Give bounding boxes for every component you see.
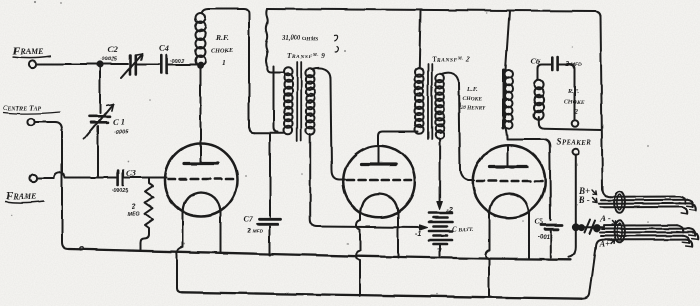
svg-text:-1: -1 [415, 231, 421, 238]
wire : V1 plate lead / junction with C4 [200, 65, 202, 147]
terminal : frame aerial bottom [29, 174, 36, 181]
svg-text:·00025: ·00025 [100, 57, 118, 63]
transformer T2 core [428, 64, 432, 139]
wire : A spare lead 2 [600, 231, 692, 233]
svg-text:C2: C2 [108, 44, 119, 54]
wire : V3 filament left leg [485, 213, 489, 297]
svg-text:R.F.: R.F. [215, 33, 229, 42]
wire : V3 filament right leg [528, 213, 530, 258]
wire : T2 primary top to rail2 [419, 11, 420, 68]
wire : choke top to top rail no.1 [202, 9, 209, 14]
wire : C1 top lead [99, 64, 101, 113]
svg-text:2: 2 [574, 109, 579, 116]
LF choke winding [505, 70, 513, 78]
vacuum tube V1 (detector) [165, 144, 238, 217]
node : junction of C1 with aerial lead [97, 62, 102, 67]
wire : T2 secondary bottom down to C battery [439, 139, 441, 203]
svg-text:·001: ·001 [538, 235, 551, 241]
capacitor C5 (.001) [541, 225, 562, 257]
wire : top rail no.2 (B+ bus) [267, 9, 601, 17]
wire : C1 bottom lead [97, 126, 99, 176]
battery C BATT [429, 213, 452, 244]
wire : V1 filament left leg to lower bus (hop over upper bus) [177, 212, 183, 292]
wire : rail2 right end down to B+ leads [601, 15, 611, 197]
svg-text:-2: -2 [447, 208, 453, 215]
wire : V2 filament left leg (hops bias wire and upper bus) [356, 213, 361, 296]
wire : A spare lead 1 [602, 228, 689, 230]
wire : V1 filament right leg to upper bus [220, 212, 222, 253]
svg-text:TRANSFM. 9: TRANSFM. 9 [287, 52, 325, 60]
wire : B+ lead [610, 196, 679, 198]
LF choke 20 henrys : core bar [502, 70, 505, 128]
little arrow after A- label [612, 221, 616, 225]
svg-text:CHOKE: CHOKE [565, 100, 585, 106]
svg-text:C4: C4 [159, 43, 169, 53]
terminal : speaker bottom [573, 149, 580, 156]
resistor R1 2 MEG grid leak [141, 178, 154, 250]
svg-text:C6: C6 [531, 57, 540, 66]
svg-text:C3: C3 [126, 168, 137, 178]
transformer T1 primary winding [284, 67, 293, 76]
svg-text:TRANSFM. 2: TRANSFM. 2 [432, 56, 470, 64]
wire : centre tap down to filament bus [35, 122, 69, 249]
svg-text:+: + [437, 244, 442, 254]
wire : B- lead [601, 199, 687, 202]
wire : T1 secondary top to V2 grid [312, 68, 345, 179]
transformer T1 secondary winding [306, 69, 315, 78]
RF choke no.2 [534, 80, 544, 90]
wire : LF choke top to rail2 [506, 11, 510, 70]
svg-text:2: 2 [131, 204, 136, 211]
wire : T1 secondary bottom to C-battery minus [310, 134, 421, 228]
capacitor C4 (.0003) [161, 55, 166, 73]
wire : upper filament bus [69, 249, 571, 259]
transformer T2 primary winding [415, 68, 424, 77]
svg-text:31,000 OHMS: 31,000 OHMS [281, 35, 318, 42]
wire : T2 secondary top to V3 grid [442, 73, 475, 181]
svg-text:B -: B - [578, 195, 590, 205]
wire : battery plus to upper bus [439, 245, 441, 256]
wire : speaker bottom terminal down to A- junction and bus [569, 156, 576, 257]
svg-text:A -: A - [599, 214, 610, 224]
little arrows after B labels [593, 190, 598, 195]
wire : A+ lead [603, 239, 686, 241]
capacitor C7 2MFD plate bypass [258, 134, 282, 255]
svg-text:FRAME: FRAME [5, 190, 36, 202]
svg-text:·0003: ·0003 [170, 59, 185, 65]
wire : B spare lead 2 [600, 206, 681, 208]
arrow into battery [420, 225, 428, 230]
wire : rail2 left end down to T1 primary top (sketchy) [266, 9, 283, 73]
svg-text:1: 1 [222, 59, 226, 68]
wire : C6 left to RF choke no.2 [538, 65, 551, 81]
svg-text:C BATT.: C BATT. [452, 226, 473, 234]
capacitor C3 (.00025 grid condenser) [118, 171, 123, 186]
svg-text:CHOKE: CHOKE [211, 48, 233, 55]
cable loop on B leads [614, 191, 625, 213]
svg-text:A+: A+ [599, 239, 611, 249]
terminal : speaker top [572, 120, 579, 127]
svg-text:CHOKE: CHOKE [463, 97, 483, 103]
svg-text:·0005: ·0005 [114, 130, 129, 136]
svg-text:L.F.: L.F. [467, 86, 479, 93]
wire : LF choke bottom to V3 plate and C5 [506, 128, 508, 139]
transformer T2 secondary winding [435, 74, 444, 83]
svg-text:C7: C7 [244, 215, 254, 224]
cable loop on A leads [614, 221, 625, 243]
svg-text:2 MFD: 2 MFD [246, 228, 263, 235]
svg-text:R.F.: R.F. [567, 88, 579, 95]
wire : B spare lead 1 [599, 202, 691, 204]
little arrow after A+ label [611, 240, 615, 244]
svg-text:C5: C5 [535, 217, 544, 226]
svg-text:·00025: ·00025 [111, 189, 129, 195]
svg-text:20 HENRY: 20 HENRY [460, 106, 487, 112]
wire : junction to A- lead [576, 226, 604, 228]
wire : plate feed into transformer T1 primary bottom [254, 132, 284, 134]
stray mark on filament bus [79, 247, 83, 251]
wire : A- lead [604, 224, 677, 226]
wire : V2 filament right leg [397, 213, 399, 258]
wire : extra inner lead beside T1 primary [274, 66, 279, 132]
terminal : frame aerial top [28, 60, 35, 67]
capacitor C6 2MFD [552, 58, 557, 71]
fuse / plug marks on A- junction [585, 220, 596, 234]
wire : top rail no.1 [209, 9, 254, 133]
svg-text:2 MFD: 2 MFD [565, 61, 582, 68]
wire : C6 right down to speaker terminal 1 [559, 65, 575, 120]
wire : lower bus right end up to A+ [582, 240, 603, 299]
capacitor C1 (variable .0005) [84, 104, 113, 139]
svg-text:FRAME: FRAME [12, 45, 43, 57]
wire : top aerial lead [37, 63, 129, 65]
wire : V2 plate up and right to T2 primary bottom [379, 132, 419, 148]
vacuum tube V2 (1st audio) [343, 146, 415, 218]
wire : grid lead of V1 [125, 177, 167, 179]
wire : A spare lead 3 [601, 235, 683, 237]
node : speaker/A- junction dots [573, 224, 579, 230]
capacitor C2 (variable .00025) [121, 54, 143, 79]
svg-text:C 1: C 1 [113, 117, 125, 127]
svg-text:MEG: MEG [128, 212, 141, 218]
RF choke no.1 in V1 plate circuit [196, 13, 206, 23]
wire : lower filament bus [182, 292, 582, 298]
squiggle flourish after 31,000 ohms [335, 35, 339, 52]
transformer T1 core [297, 62, 301, 141]
terminal : centre tap [27, 118, 34, 125]
vacuum tube V3 (output) [473, 145, 545, 217]
wire : RF choke 2 bottom to B+ lead [539, 117, 601, 130]
wire : frame bottom to grid condenser, hop over centre-tap lead [37, 172, 116, 178]
